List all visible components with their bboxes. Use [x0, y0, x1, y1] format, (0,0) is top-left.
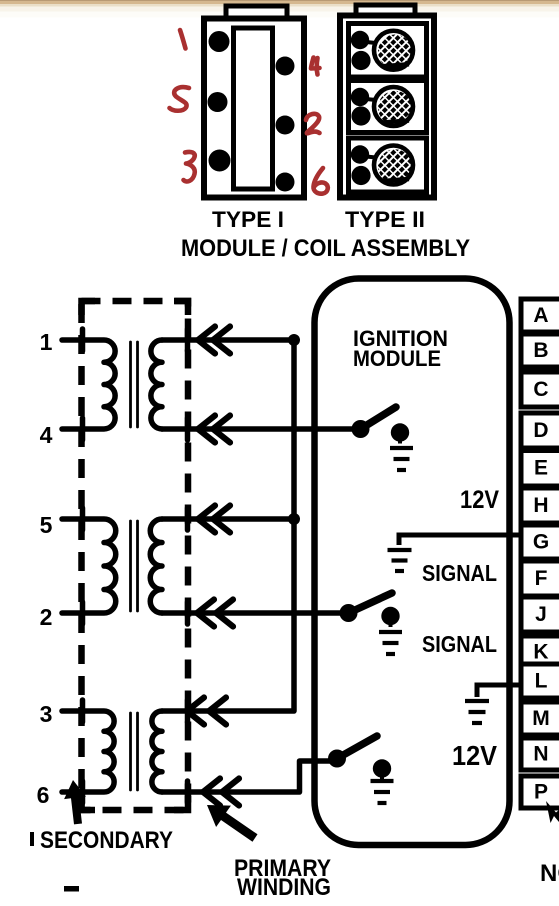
svg-text:H: H — [533, 494, 548, 517]
svg-text:2: 2 — [40, 604, 53, 630]
svg-text:1: 1 — [40, 329, 53, 355]
svg-text:D: D — [533, 419, 548, 442]
svg-text:WINDING: WINDING — [237, 874, 331, 901]
svg-text:F: F — [535, 567, 548, 590]
svg-text:SIGNAL: SIGNAL — [422, 631, 497, 657]
svg-text:E: E — [534, 457, 548, 480]
svg-text:J: J — [535, 603, 547, 626]
svg-text:3: 3 — [40, 701, 53, 727]
svg-text:M: M — [532, 707, 550, 730]
svg-text:TYPE II: TYPE II — [345, 207, 425, 232]
svg-text:C: C — [533, 378, 548, 401]
svg-text:P: P — [534, 780, 548, 803]
svg-text:G: G — [533, 530, 549, 553]
svg-text:6: 6 — [37, 782, 50, 808]
svg-text:TYPE I: TYPE I — [212, 207, 284, 232]
svg-text:K: K — [533, 641, 548, 664]
svg-text:12V: 12V — [460, 486, 499, 514]
svg-text:MODULE / COIL ASSEMBLY: MODULE / COIL ASSEMBLY — [181, 235, 470, 262]
svg-text:NOTE: NOTE — [540, 860, 559, 887]
svg-text:A: A — [533, 304, 548, 327]
svg-text:L: L — [535, 669, 548, 692]
svg-text:MODULE: MODULE — [353, 346, 441, 371]
svg-text:SECONDARY: SECONDARY — [40, 827, 173, 854]
svg-text:B: B — [533, 339, 548, 362]
svg-text:5: 5 — [40, 512, 53, 538]
svg-text:4: 4 — [40, 422, 53, 448]
svg-text:12V: 12V — [452, 740, 497, 771]
svg-text:SIGNAL: SIGNAL — [422, 560, 497, 586]
svg-text:N: N — [533, 742, 548, 765]
